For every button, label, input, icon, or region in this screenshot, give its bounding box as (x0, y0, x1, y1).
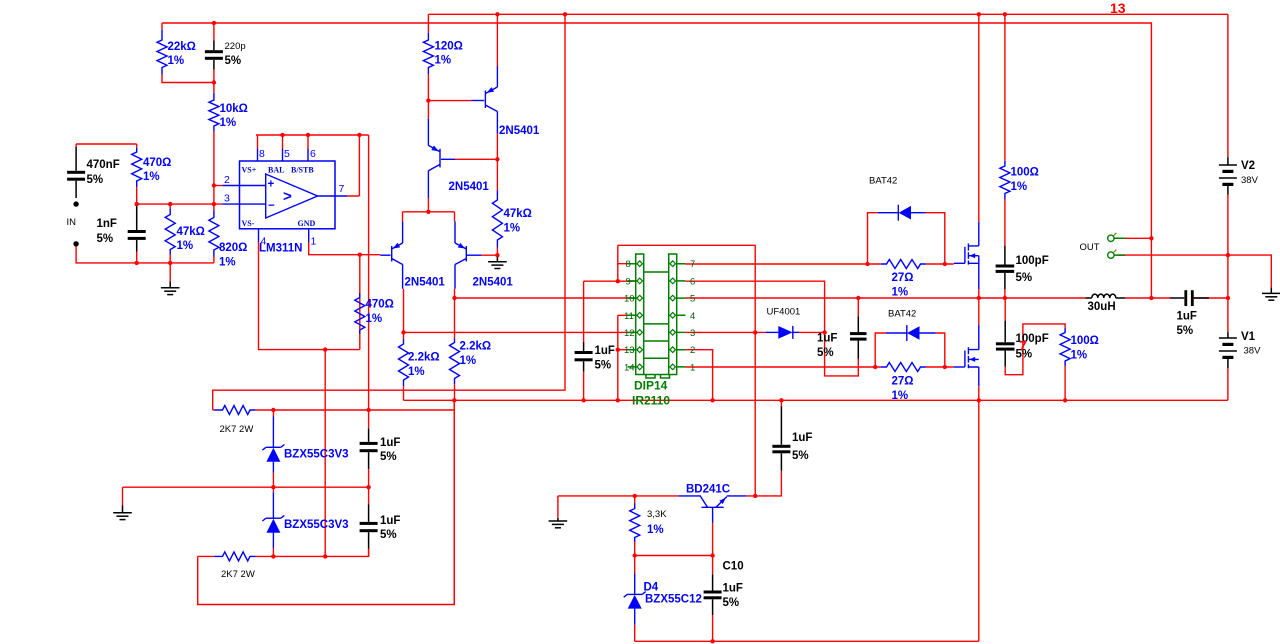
svg-text:120Ω: 120Ω (435, 41, 463, 53)
wire 470R#1 bottom stub (136, 187, 138, 204)
capacitor 470nF input (75, 147, 77, 171)
svg-text:V2: V2 (1241, 160, 1255, 172)
ic U2 DIP14 socket left rail (636, 254, 644, 375)
capacitor 1nF (136, 206, 138, 230)
svg-text:2.2kΩ: 2.2kΩ (408, 352, 440, 364)
svg-text:1%: 1% (1071, 350, 1088, 362)
svg-text:1%: 1% (177, 240, 194, 252)
wire left bias vertical x=325.2 (324, 350, 326, 557)
ic U2 pin diamonds (637, 261, 643, 267)
svg-text:3: 3 (224, 193, 230, 205)
wire BAT42#1 bridge (868, 213, 945, 264)
svg-text:10kΩ: 10kΩ (220, 103, 248, 115)
svg-text:5%: 5% (1177, 325, 1194, 337)
zener D1 BZX55C3V3 (272, 416, 274, 447)
resistor 10k (209, 93, 219, 132)
svg-text:5%: 5% (723, 597, 740, 609)
svg-text:UF4001: UF4001 (767, 307, 801, 318)
svg-text:100Ω: 100Ω (1071, 335, 1099, 347)
capacitor 100pF#1 (1004, 246, 1006, 265)
resistor 470R#2 (355, 293, 365, 334)
transistor Q2 2N5401 (439, 149, 441, 168)
resistor 47k#1 (165, 208, 175, 254)
wire caps column red joints x=368.6 (368, 469, 370, 556)
svg-text:5%: 5% (792, 450, 809, 462)
svg-text:100Ω: 100Ω (1011, 167, 1039, 179)
wire LM311 top pins bus (256, 135, 369, 149)
svg-text:1uF: 1uF (380, 515, 400, 527)
wire row y=556.4 (2K7#2) (198, 549, 369, 557)
wire zener column stubs (272, 410, 274, 556)
wire pin2 drop (685, 350, 712, 401)
svg-text:1uF: 1uF (1177, 311, 1197, 323)
svg-text:1uF: 1uF (817, 333, 837, 345)
svg-text:DIP14: DIP14 (634, 379, 668, 393)
wire diff pair emitter rail (403, 212, 455, 222)
svg-text:VS-: VS- (242, 219, 255, 228)
wire 3.3k column (634, 496, 636, 556)
resistor 2.2k#1 (399, 339, 409, 386)
svg-text:27Ω: 27Ω (892, 376, 914, 388)
svg-text:BZX55C3V3: BZX55C3V3 (284, 519, 349, 531)
svg-text:D4: D4 (644, 582, 659, 594)
svg-text:5%: 5% (1016, 272, 1033, 284)
wire pin1 row y=254.7 (309, 242, 381, 255)
svg-text:470Ω: 470Ω (366, 299, 394, 311)
wire row y=410 (2K7#1) (213, 409, 455, 411)
wire lower mosfet source drop (978, 386, 980, 400)
ic U2 bottom tabs (646, 375, 670, 379)
wire bootstrap cap1 top stub (857, 298, 859, 316)
svg-text:B/STB: B/STB (291, 166, 314, 175)
capacitor C10 1uF (712, 574, 714, 590)
wire V2/V1 column (1227, 14, 1229, 400)
svg-text:5%: 5% (595, 360, 612, 372)
resistor 2.2k#2 (450, 338, 460, 384)
wire BD241C collector drop (712, 523, 714, 556)
svg-text:220p: 220p (225, 41, 246, 52)
wire op-amp supply drop x=368.6 (368, 135, 370, 429)
wire mosfet midpoint joints (978, 289, 980, 325)
wire 10k column down to op-amp inputs (213, 83, 215, 263)
op-amp U1 LM311N box (240, 161, 336, 229)
svg-text:+: + (268, 179, 275, 191)
wire feedback rail y=23 (162, 23, 1151, 298)
svg-text:1%: 1% (892, 390, 909, 402)
ic U2 DIP14 socket right rail (669, 254, 677, 375)
resistor 47k#2 (492, 191, 502, 248)
svg-text:47kΩ: 47kΩ (504, 208, 532, 220)
svg-text:5%: 5% (817, 347, 834, 359)
svg-text:5%: 5% (380, 529, 397, 541)
wire D4 column (634, 556, 636, 642)
svg-text:13: 13 (1110, 0, 1126, 16)
svg-text:1%: 1% (1011, 181, 1028, 193)
wire op-amp + input (214, 185, 222, 187)
wire Q2 emitter/collector joints x=428.4 (427, 101, 429, 212)
wire Q1 emitter riser (496, 14, 498, 66)
op-amp triangle (266, 174, 318, 218)
wire VDD top loop to pin3 net drop (618, 245, 755, 496)
wire 1uF cap column x=781.4 (780, 400, 782, 406)
wire BD241C emitter row (746, 471, 781, 496)
svg-text:4: 4 (690, 311, 695, 322)
battery V1 38V (1227, 332, 1229, 338)
svg-text:VS+: VS+ (242, 166, 257, 175)
resistor 100R#2 (1060, 328, 1070, 366)
svg-text:22kΩ: 22kΩ (168, 41, 196, 53)
wire pin11/pin13 feed (618, 315, 637, 400)
svg-text:IR2110: IR2110 (632, 394, 670, 408)
transistor Q3 2N5401 (391, 246, 393, 262)
svg-text:1%: 1% (366, 313, 383, 325)
svg-text:8: 8 (259, 148, 265, 160)
svg-text:14: 14 (624, 362, 635, 373)
svg-text:5%: 5% (380, 451, 397, 463)
svg-text:100pF: 100pF (1016, 255, 1049, 267)
wire 47k#2 column to ground node (481, 159, 497, 255)
svg-text:1%: 1% (435, 55, 452, 67)
svg-text:GND: GND (298, 219, 316, 228)
wire pin10 row y=298 (455, 297, 637, 299)
op-amp pin stubs (222, 149, 347, 243)
battery V2 38V (1227, 157, 1229, 165)
wire 47k stubs and ground drop (169, 204, 171, 281)
capacitor 1uF #1 left column (368, 429, 370, 442)
svg-text:1uF: 1uF (792, 432, 812, 444)
zener D4 BZX55C12 (634, 574, 636, 595)
svg-text:1uF: 1uF (723, 583, 743, 595)
resistor 820R (209, 210, 219, 257)
svg-text:LM311N: LM311N (259, 243, 302, 255)
svg-text:1%: 1% (892, 287, 909, 299)
wire 1nF stubs (136, 204, 138, 263)
svg-text:1%: 1% (460, 355, 477, 367)
svg-text:BAT42: BAT42 (869, 176, 897, 187)
wire OUT pin2 row to right ground (1117, 255, 1271, 288)
svg-text:3,3K: 3,3K (647, 509, 667, 520)
svg-text:30uH: 30uH (1088, 301, 1116, 313)
wire Q4 collector column / 2.2k#2 (453, 289, 455, 605)
wire upper mosfet drain riser (978, 14, 980, 222)
svg-text:1: 1 (690, 362, 695, 373)
wire 100pF#2 / 100R#2 loop (1005, 298, 1065, 400)
svg-text:27Ω: 27Ω (892, 272, 914, 284)
svg-text:13: 13 (624, 345, 635, 356)
svg-text:6: 6 (690, 276, 695, 287)
wire +rail drop x=565 and row y=390.2 (213, 14, 565, 410)
svg-text:5: 5 (690, 294, 695, 305)
wire 22k/220p loop (162, 23, 214, 83)
svg-text:7: 7 (339, 183, 345, 195)
resistor 27R#1 (881, 260, 926, 269)
svg-text:>: > (283, 188, 292, 205)
inductor 30uH (1086, 297, 1092, 299)
ground BD241C base (557, 518, 559, 521)
svg-text:1nF: 1nF (97, 218, 117, 230)
resistor 2K7 2W #1 (214, 406, 255, 415)
wire bottom-left return loop (198, 400, 455, 604)
ground input (169, 281, 171, 288)
wire pin6 net loop (685, 281, 858, 376)
svg-text:38V: 38V (1241, 175, 1259, 186)
svg-text:C10: C10 (723, 561, 744, 573)
svg-text:2K7 2W: 2K7 2W (221, 569, 255, 580)
diode BAT42 upper (878, 212, 899, 214)
junction dots (212, 21, 216, 25)
mosfet M2 lower (954, 366, 965, 368)
capacitor 1uF output (horizontal) (1170, 297, 1184, 299)
svg-text:5%: 5% (225, 55, 242, 67)
wire row y=555.5 (635, 555, 713, 557)
svg-text:9: 9 (626, 276, 631, 287)
resistor 2K7 2W #2 (214, 552, 255, 561)
wire input top row (76, 144, 137, 148)
transistor Q5 BD241C (679, 496, 708, 507)
wire +38V top rail (net 13) (428, 13, 1228, 15)
svg-text:2: 2 (224, 174, 230, 186)
svg-text:5%: 5% (87, 174, 104, 186)
capacitor 220p (213, 41, 215, 51)
transistor Q1 2N5401 (484, 91, 486, 109)
wire input bottom row (76, 246, 214, 263)
wire pin4 drop and row y=349.6 (259, 242, 360, 350)
svg-text:470Ω: 470Ω (143, 157, 171, 169)
wire 27R#1 row (685, 263, 953, 265)
capacitor 1uF (x=781.4) (780, 406, 782, 445)
svg-text:BZX55C3V3: BZX55C3V3 (284, 449, 349, 461)
diode UF4001 (766, 331, 779, 333)
svg-text:5%: 5% (97, 233, 114, 245)
resistor 470R#1 (132, 148, 142, 188)
svg-text:2N5401: 2N5401 (405, 277, 446, 289)
svg-text:2.2kΩ: 2.2kΩ (460, 341, 492, 353)
wire pin9 row (584, 280, 637, 282)
svg-text:OUT: OUT (1080, 242, 1100, 253)
svg-text:V1: V1 (1241, 331, 1256, 343)
resistor 100R#1 (1000, 161, 1010, 200)
svg-text:12: 12 (624, 328, 635, 339)
capacitor 1uF bootstrap1 (x=858.3) (857, 316, 859, 332)
svg-text:1uF: 1uF (595, 345, 615, 357)
wire pin3 row / UF4001 (685, 331, 824, 333)
svg-text:1%: 1% (168, 55, 185, 67)
wire op-amp - input row (137, 203, 223, 205)
ground diff pair (496, 255, 498, 262)
svg-text:1: 1 (311, 236, 317, 248)
connector OUT pins (1108, 235, 1114, 241)
wire BD241C base row to ground (558, 496, 679, 518)
svg-text:7: 7 (1019, 338, 1027, 354)
svg-text:47kΩ: 47kΩ (177, 226, 205, 238)
wire LM311 pin7 riser (347, 135, 359, 196)
svg-text:BD241C: BD241C (686, 484, 730, 496)
svg-text:3: 3 (690, 328, 695, 339)
svg-text:2N5401: 2N5401 (499, 125, 540, 137)
svg-text:6: 6 (310, 148, 316, 160)
svg-text:1%: 1% (219, 257, 236, 269)
svg-text:2: 2 (690, 345, 695, 356)
wire ground rail y=400.3 (404, 399, 1228, 401)
svg-text:BAT42: BAT42 (888, 309, 916, 320)
wire Q1 collector to Q2 base node (455, 134, 497, 160)
svg-text:1%: 1% (143, 171, 160, 183)
svg-text:−: − (268, 200, 275, 212)
wire 100R#1 column (1004, 14, 1006, 298)
svg-text:1%: 1% (220, 117, 237, 129)
wire BAT42#2 bridge (875, 333, 945, 367)
mosfet M1 upper (954, 262, 965, 264)
svg-text:7: 7 (690, 259, 695, 270)
wire Q3 collector column / 2.2k#1 (403, 289, 405, 401)
svg-text:IN: IN (67, 217, 77, 228)
node IN terminal dots (73, 201, 78, 206)
wire bootstrap cap2 column x=583.6 (583, 281, 585, 400)
svg-text:1%: 1% (504, 223, 521, 235)
resistor 3.3k (630, 504, 640, 543)
wire C10 column (712, 556, 714, 642)
diode BAT42 lower (886, 332, 907, 334)
wire bottom rail y=641.3 (635, 400, 979, 641)
ground right (1270, 288, 1272, 294)
capacitor 100pF#2 (1004, 321, 1006, 343)
svg-text:820Ω: 820Ω (219, 242, 247, 254)
wire 470R#2 top stub (359, 255, 361, 293)
svg-text:470nF: 470nF (87, 159, 120, 171)
svg-text:BZX55C12: BZX55C12 (645, 594, 702, 606)
capacitor 1uF #2 left column (368, 505, 370, 522)
resistor 27R#2 (881, 363, 926, 372)
svg-text:2N5401: 2N5401 (449, 181, 490, 193)
ic U2 pin stubs (628, 264, 686, 367)
wire Q1 base row (428, 100, 471, 102)
svg-text:1uF: 1uF (380, 437, 400, 449)
zener D2 BZX55C3V3 (272, 492, 274, 518)
wire OUT pin1 lead (1117, 237, 1151, 239)
capacitor 1uF bootstrap2 (x=583.6) (583, 342, 585, 351)
svg-text:BAL: BAL (268, 166, 284, 175)
svg-text:5: 5 (284, 148, 290, 160)
svg-text:1%: 1% (647, 524, 664, 536)
wire pin5 / output row y=298 (685, 297, 1228, 299)
wire row y=487.2 to ground (123, 487, 369, 505)
svg-text:2N5401: 2N5401 (473, 277, 514, 289)
wire pin1 row / 27R#2 row (685, 366, 953, 368)
wire pin12 row y=332.4 (404, 331, 637, 333)
svg-text:2K7 2W: 2K7 2W (220, 424, 254, 435)
resistor 22k (157, 30, 167, 75)
wire 120R column (427, 14, 429, 100)
resistor 120R (423, 33, 433, 74)
svg-text:11: 11 (624, 311, 634, 322)
svg-text:38V: 38V (1244, 346, 1262, 357)
wire pin8/pin9 feed (618, 245, 637, 281)
transistor Q4 2N5401 (465, 246, 467, 262)
svg-text:10: 10 (624, 294, 635, 305)
svg-text:1%: 1% (408, 366, 425, 378)
svg-text:8: 8 (626, 259, 631, 270)
ic U2 crossbars (644, 272, 669, 375)
ground left (122, 506, 124, 513)
